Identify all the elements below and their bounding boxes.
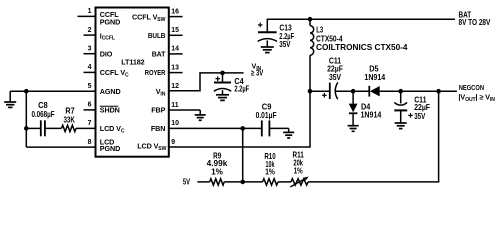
node junction C4 [220, 71, 225, 76]
svg-text:1N914: 1N914 [361, 110, 382, 119]
ground (C4) [216, 90, 229, 100]
wire BAT rail [267, 18, 455, 20]
wire C8 to R7 [45, 127, 62, 129]
wire to C11a [310, 90, 330, 92]
wire C11b node to feedback node [401, 90, 439, 92]
wire pin 10 FBN row [169, 127, 243, 129]
svg-text:1N914: 1N914 [364, 73, 385, 82]
wire R7 to pin 7 [76, 127, 96, 129]
wire R9 to divider node [224, 181, 242, 183]
svg-text:11: 11 [171, 102, 178, 109]
svg-text:15: 15 [171, 27, 179, 34]
resistor R10 10k 1% [263, 152, 278, 185]
svg-text:2.2µF: 2.2µF [234, 85, 249, 94]
wire bottom rail right [308, 181, 439, 183]
svg-text:PGND: PGND [100, 17, 120, 26]
svg-text:|VOUT| ≥ VIN: |VOUT| ≥ VIN [458, 92, 495, 102]
svg-text:PGND: PGND [100, 144, 120, 153]
wire pin 11 FBP to ground [169, 109, 200, 111]
resistor R11 20k 1% (variable) [290, 150, 309, 187]
svg-text:LT1182: LT1182 [121, 58, 144, 67]
svg-text:R7: R7 [65, 106, 75, 115]
svg-text:NEGCON: NEGCON [459, 83, 484, 92]
svg-text:1%: 1% [211, 167, 224, 176]
wire node to R10 [243, 181, 263, 183]
svg-text:4: 4 [88, 64, 92, 71]
diode D5 1N914 [364, 64, 385, 96]
svg-text:9: 9 [171, 139, 175, 146]
pin 12 VIN [156, 83, 179, 97]
pin 8 LCD PGND [88, 138, 121, 153]
svg-text:L3: L3 [316, 26, 323, 35]
svg-text:≥ 3V: ≥ 3V [251, 69, 264, 78]
node junction BAT / L3 [308, 17, 313, 22]
pin 4 stub CCFL VC [84, 64, 130, 78]
svg-text:3: 3 [88, 46, 92, 53]
svg-text:CTX50-4: CTX50-4 [316, 34, 343, 43]
ground (FBP) [195, 110, 206, 120]
svg-text:35V: 35V [414, 112, 426, 121]
wire pin 12 VIN jog [169, 73, 244, 91]
wire C11a to D4 node [336, 90, 353, 92]
svg-text:FBN: FBN [151, 124, 165, 133]
node junction L3 / C11a / pin9 riser [308, 89, 313, 94]
svg-text:2: 2 [88, 27, 92, 34]
svg-text:13: 13 [171, 64, 179, 71]
resistor R9 4.99k 1% [207, 152, 228, 186]
pin 6 stub SHDN [84, 102, 120, 115]
pin 14 stub BAT [152, 46, 183, 59]
node junction FBN [240, 126, 245, 131]
capacitor C9 0.01uF [256, 103, 277, 137]
svg-text:COILTRONICS CTX50-4: COILTRONICS CTX50-4 [316, 43, 408, 52]
svg-text:7: 7 [88, 120, 92, 127]
svg-text:1%: 1% [265, 168, 275, 177]
inductor L3 CTX50-4 [310, 19, 408, 55]
node junction feedback [436, 89, 441, 94]
svg-text:CCFL VC: CCFL VC [100, 68, 129, 78]
pin 15 stub BULB [148, 27, 183, 40]
wire FBN vertical to divider [242, 128, 244, 182]
pin 2 stub ICCFL [84, 27, 115, 42]
ground (D4) [348, 113, 359, 131]
svg-text:35V: 35V [329, 73, 342, 82]
svg-text:1%: 1% [294, 167, 304, 176]
ground (C13) [261, 40, 274, 52]
svg-text:C8: C8 [38, 101, 48, 110]
wire to NEGCON output [439, 90, 457, 92]
pin 16 stub CCFL VSW [132, 8, 183, 22]
wire R10 to R11 [278, 181, 291, 183]
wire 5V to R9 [197, 181, 209, 183]
wire AGND from ground to pin 5 [10, 90, 95, 92]
svg-text:6: 6 [88, 102, 92, 109]
svg-text:33K: 33K [63, 115, 75, 124]
wire vertical left bus [25, 91, 27, 147]
svg-text:SHDN: SHDN [100, 106, 120, 115]
wire to D5 [353, 90, 369, 92]
wire to C8 [26, 127, 41, 129]
capacitor C11 22uF (vertical, output) [394, 91, 430, 121]
capacitor C4 2.2uF [214, 73, 249, 94]
svg-text:16: 16 [171, 8, 179, 15]
svg-text:8: 8 [88, 139, 92, 146]
node junction divider [240, 180, 245, 185]
node junction C11b [398, 89, 403, 94]
pin 3 stub DIO [84, 46, 113, 59]
resistor R7 33K [62, 106, 76, 131]
svg-text:BULB: BULB [148, 31, 165, 40]
svg-text:ROYER: ROYER [145, 68, 166, 77]
capacitor C11 22uF (horizontal) [322, 56, 343, 99]
ground (C9) [283, 128, 294, 138]
svg-text:0.068µF: 0.068µF [31, 110, 54, 119]
node label NEGCON [458, 83, 495, 103]
wire feedback vertical [438, 91, 440, 182]
node label VIN >= 3V [251, 62, 264, 78]
svg-text:FBP: FBP [151, 106, 165, 115]
svg-text:10: 10 [171, 120, 179, 127]
pin 5 AGND [88, 83, 121, 96]
node junction on AGND wire [24, 89, 29, 94]
svg-text:8V TO 28V: 8V TO 28V [459, 18, 491, 27]
svg-text:5V: 5V [183, 178, 190, 187]
node label BAT 8V TO 28V [459, 11, 491, 28]
ground (C11b) [395, 110, 407, 128]
svg-text:AGND: AGND [100, 87, 121, 96]
pin 1 stub CCFL PGND [78, 8, 121, 26]
wire D5 to C11b node [380, 90, 401, 92]
svg-text:5: 5 [88, 83, 92, 90]
op-amp U1 LT1182 IC body [96, 8, 169, 157]
svg-text:1: 1 [88, 8, 92, 15]
svg-text:0.01µF: 0.01µF [256, 111, 277, 120]
capacitor C13 2.2uF top [258, 19, 294, 49]
svg-text:22µF: 22µF [414, 103, 430, 112]
svg-text:DIO: DIO [100, 49, 113, 58]
svg-text:12: 12 [171, 83, 179, 90]
wire pin 9 LCD VSW to L3 bottom [169, 55, 310, 147]
svg-text:BAT: BAT [152, 50, 166, 59]
pin 7 LCD VC [88, 120, 125, 134]
svg-text:35V: 35V [279, 40, 291, 49]
node junction D4 [351, 89, 356, 94]
svg-text:14: 14 [171, 46, 179, 53]
pin 13 stub ROYER [145, 64, 183, 77]
wire FBN to C9 [243, 127, 262, 129]
ground (left, AGND) [4, 91, 16, 107]
wire left bus to pin 8 LCD PGND [26, 146, 95, 148]
diode D4 1N914 [349, 91, 382, 119]
wire C9 to ground [269, 127, 288, 129]
pin 11 FBP [151, 102, 179, 115]
node junction C8 branch [24, 126, 29, 131]
pin 10 FBN [151, 120, 179, 133]
capacitor C8 0.068uF [31, 101, 54, 136]
pin 9 LCD VSW [137, 139, 175, 152]
